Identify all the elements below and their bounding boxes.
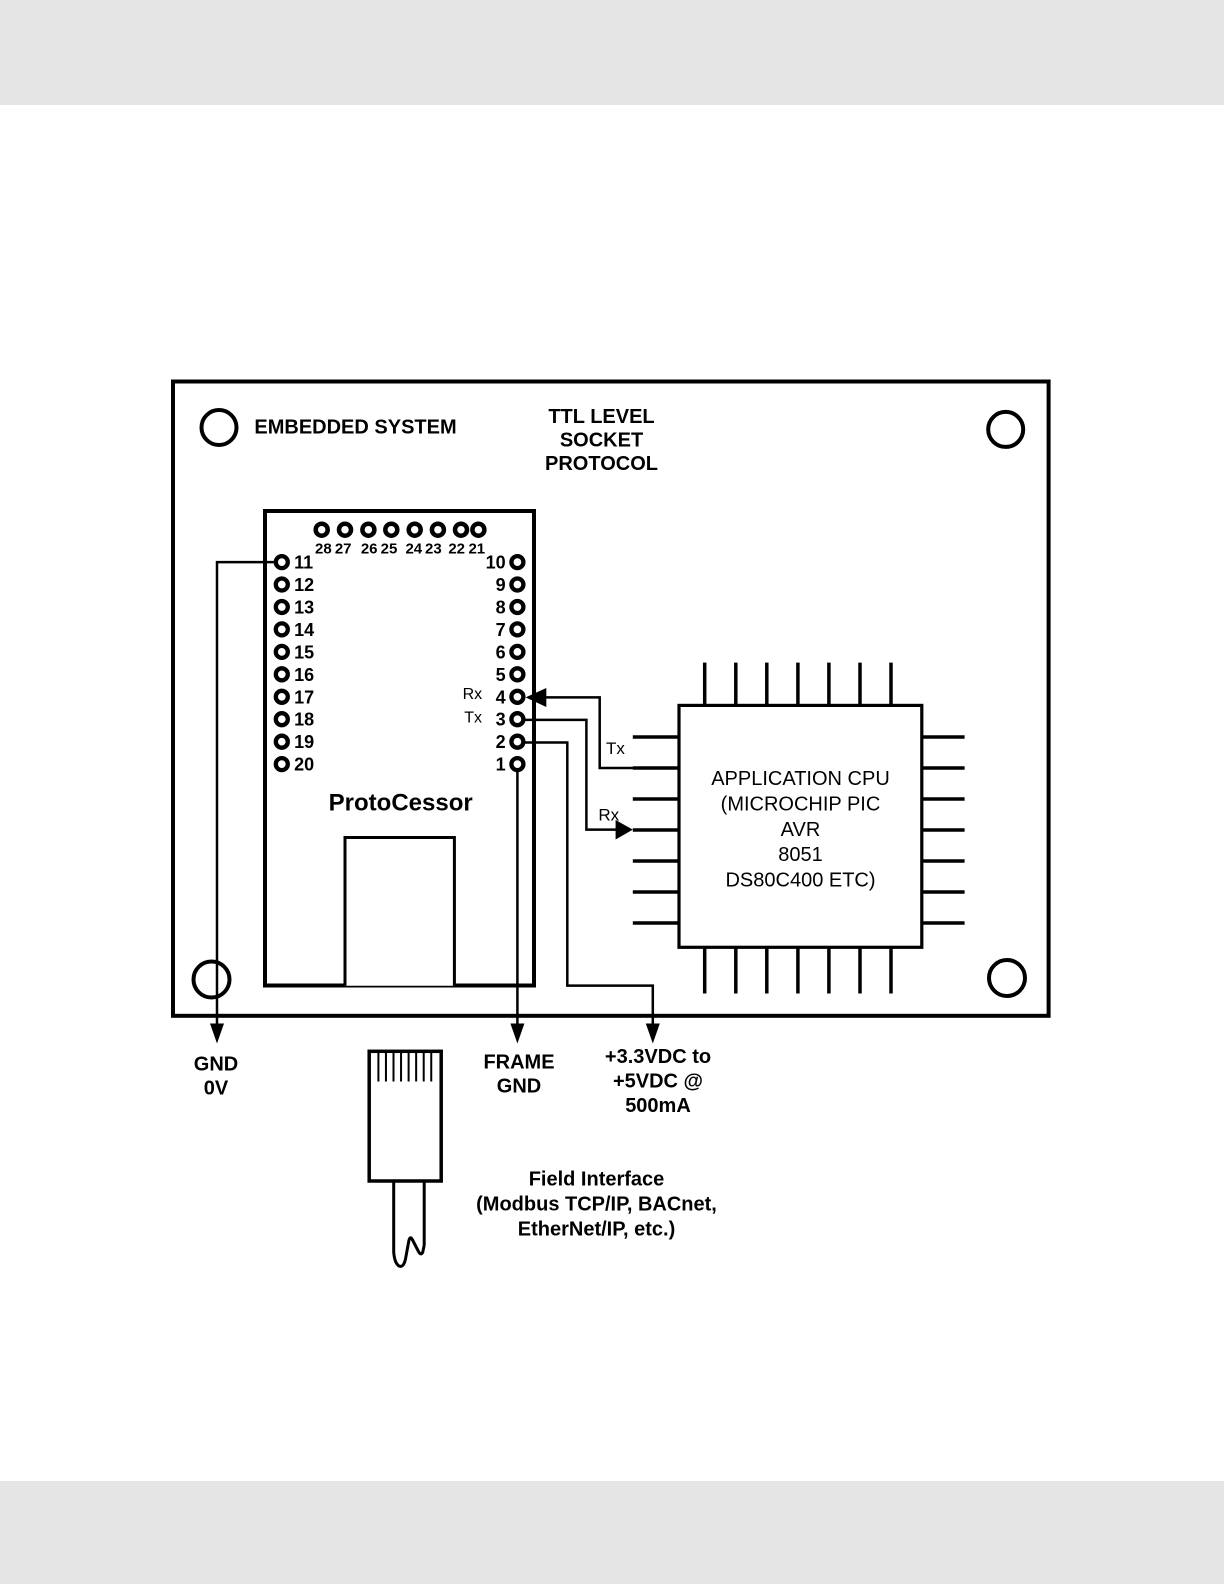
ProtoCessor module outline — [265, 511, 534, 986]
label: GND 0V — [194, 1054, 238, 1100]
svg-text:5: 5 — [496, 665, 506, 685]
svg-text:+5VDC @: +5VDC @ — [613, 1071, 703, 1093]
label: APPLICATION CPU (MICROCHIP PIC AVR 8051 DS80C400 ETC) — [711, 768, 890, 891]
wire: pin 2 to +3.3VDC supply — [525, 743, 653, 1027]
wire: ProtoCessor pin 3 Tx to CPU Rx input — [525, 720, 617, 830]
svg-text:12: 12 — [294, 575, 314, 595]
ProtoCessor left pin numbers 11-20 — [294, 553, 314, 775]
wire: pin 11 to GND 0V — [217, 562, 274, 1026]
svg-text:FRAME: FRAME — [483, 1052, 554, 1074]
svg-text:25: 25 — [381, 541, 398, 558]
label: Field Interface (Modbus TCP/IP, BACnet, EtherNet/IP, etc.) — [476, 1168, 717, 1240]
label: TTL LEVEL SOCKET PROTOCOL — [545, 406, 658, 475]
svg-text:PROTOCOL: PROTOCOL — [545, 453, 658, 475]
svg-text:21: 21 — [468, 541, 485, 558]
svg-text:2: 2 — [496, 732, 506, 752]
ProtoCessor left pins 11-20 — [276, 556, 288, 770]
svg-text:+3.3VDC to: +3.3VDC to — [605, 1046, 711, 1068]
mounting hole top-right — [988, 412, 1023, 447]
svg-text:13: 13 — [294, 598, 314, 618]
RJ45 plug pins — [378, 1053, 431, 1082]
svg-text:20: 20 — [294, 755, 314, 775]
svg-text:26: 26 — [361, 541, 378, 558]
wire: CPU Tx output to ProtoCessor pin 4 Rx — [546, 697, 679, 768]
arrow into pin 4 — [526, 688, 547, 707]
RJ45 plug connector body — [369, 1051, 441, 1181]
RJ45 socket opening — [345, 838, 454, 986]
label: +3.3VDC to +5VDC @ 500mA — [605, 1046, 711, 1117]
svg-text:AVR: AVR — [781, 819, 821, 841]
mounting hole bottom-right — [989, 960, 1025, 996]
arrow: GND 0V — [210, 1024, 224, 1044]
svg-text:EMBEDDED SYSTEM: EMBEDDED SYSTEM — [254, 417, 456, 439]
wire: pin 1 to FRAME GND — [516, 772, 519, 1027]
embedded system board outline — [173, 382, 1049, 1016]
svg-text:11: 11 — [294, 553, 313, 573]
svg-text:SOCKET: SOCKET — [560, 430, 643, 452]
svg-text:Field Interface: Field Interface — [529, 1168, 665, 1190]
svg-text:17: 17 — [294, 687, 314, 707]
svg-text:Rx: Rx — [598, 805, 619, 824]
svg-text:24: 24 — [405, 541, 422, 558]
bottom gray band — [0, 1481, 1224, 1584]
arrow: +3.3VDC supply — [646, 1024, 660, 1044]
svg-text:15: 15 — [294, 642, 314, 662]
field interface cable with torn end — [394, 1181, 425, 1266]
svg-text:14: 14 — [294, 620, 314, 640]
svg-text:6: 6 — [496, 642, 506, 662]
ProtoCessor right pins 10-1 — [511, 556, 523, 770]
svg-text:APPLICATION CPU: APPLICATION CPU — [711, 768, 890, 790]
svg-text:DS80C400 ETC): DS80C400 ETC) — [725, 869, 875, 891]
svg-text:TTL LEVEL: TTL LEVEL — [548, 406, 654, 428]
svg-text:16: 16 — [294, 665, 314, 685]
svg-text:Rx: Rx — [463, 686, 483, 703]
svg-text:1: 1 — [496, 755, 506, 775]
svg-text:27: 27 — [335, 541, 352, 558]
svg-text:GND: GND — [194, 1054, 238, 1076]
svg-text:GND: GND — [497, 1076, 541, 1098]
svg-text:EtherNet/IP, etc.): EtherNet/IP, etc.) — [518, 1219, 675, 1241]
svg-text:23: 23 — [425, 541, 442, 558]
svg-text:0V: 0V — [204, 1077, 229, 1099]
svg-text:22: 22 — [448, 541, 465, 558]
CPU top pins — [705, 663, 891, 706]
svg-text:4: 4 — [496, 687, 506, 707]
ProtoCessor right pin numbers 10-1 — [486, 553, 506, 775]
svg-text:(Modbus TCP/IP, BACnet,: (Modbus TCP/IP, BACnet, — [476, 1193, 717, 1215]
svg-text:500mA: 500mA — [625, 1095, 691, 1117]
ProtoCessor top pins 28-21 — [316, 524, 485, 536]
svg-text:7: 7 — [496, 620, 506, 640]
CPU bottom pins — [705, 947, 891, 993]
svg-text:ProtoCessor: ProtoCessor — [329, 789, 473, 816]
arrow: FRAME GND — [510, 1024, 524, 1044]
svg-text:18: 18 — [294, 710, 314, 730]
arrow into CPU Rx — [616, 820, 633, 840]
mounting hole top-left — [202, 410, 237, 445]
CPU right pins — [922, 737, 965, 923]
application CPU outline — [679, 705, 922, 947]
label: FRAME GND — [483, 1052, 554, 1098]
ProtoCessor top pin numbers 28-21 — [315, 541, 485, 558]
svg-text:3: 3 — [496, 710, 506, 730]
svg-text:9: 9 — [496, 575, 506, 595]
svg-text:19: 19 — [294, 732, 314, 752]
svg-text:Tx: Tx — [606, 739, 625, 758]
svg-text:8: 8 — [496, 598, 506, 618]
svg-text:(MICROCHIP PIC: (MICROCHIP PIC — [721, 794, 881, 816]
svg-text:Tx: Tx — [464, 710, 482, 727]
svg-text:8051: 8051 — [778, 844, 823, 866]
CPU left pins — [633, 737, 679, 923]
top gray band — [0, 0, 1224, 105]
svg-text:10: 10 — [486, 553, 506, 573]
svg-text:28: 28 — [315, 541, 332, 558]
mounting hole bottom-left — [194, 962, 230, 998]
